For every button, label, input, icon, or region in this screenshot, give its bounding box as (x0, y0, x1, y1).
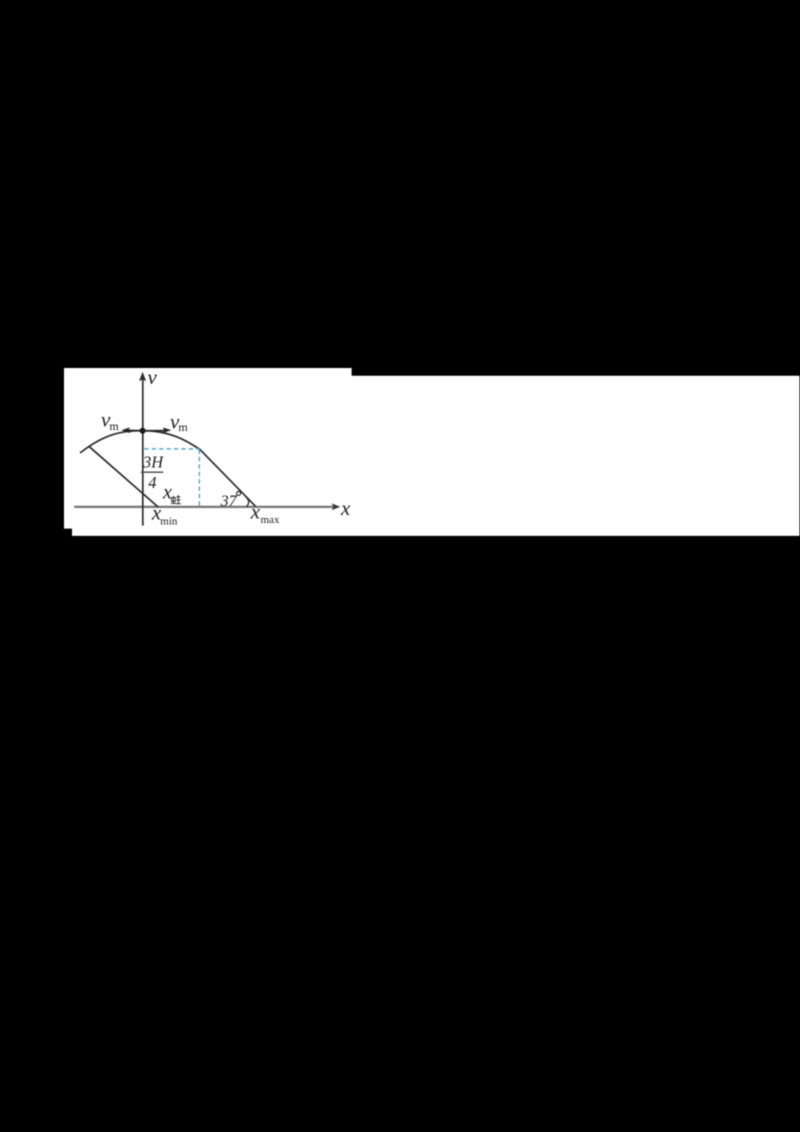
svg-text:37: 37 (220, 493, 238, 510)
svg-text:m: m (109, 419, 119, 433)
svg-text:max: max (261, 514, 280, 526)
svg-text:v: v (148, 365, 158, 389)
svg-text:x: x (162, 481, 172, 503)
svg-text:4: 4 (148, 473, 156, 492)
svg-text:min: min (160, 515, 178, 527)
svg-text:m: m (178, 420, 188, 434)
svg-text:3H: 3H (142, 452, 164, 471)
svg-text:x: x (340, 496, 351, 520)
svg-text:x: x (250, 500, 261, 524)
